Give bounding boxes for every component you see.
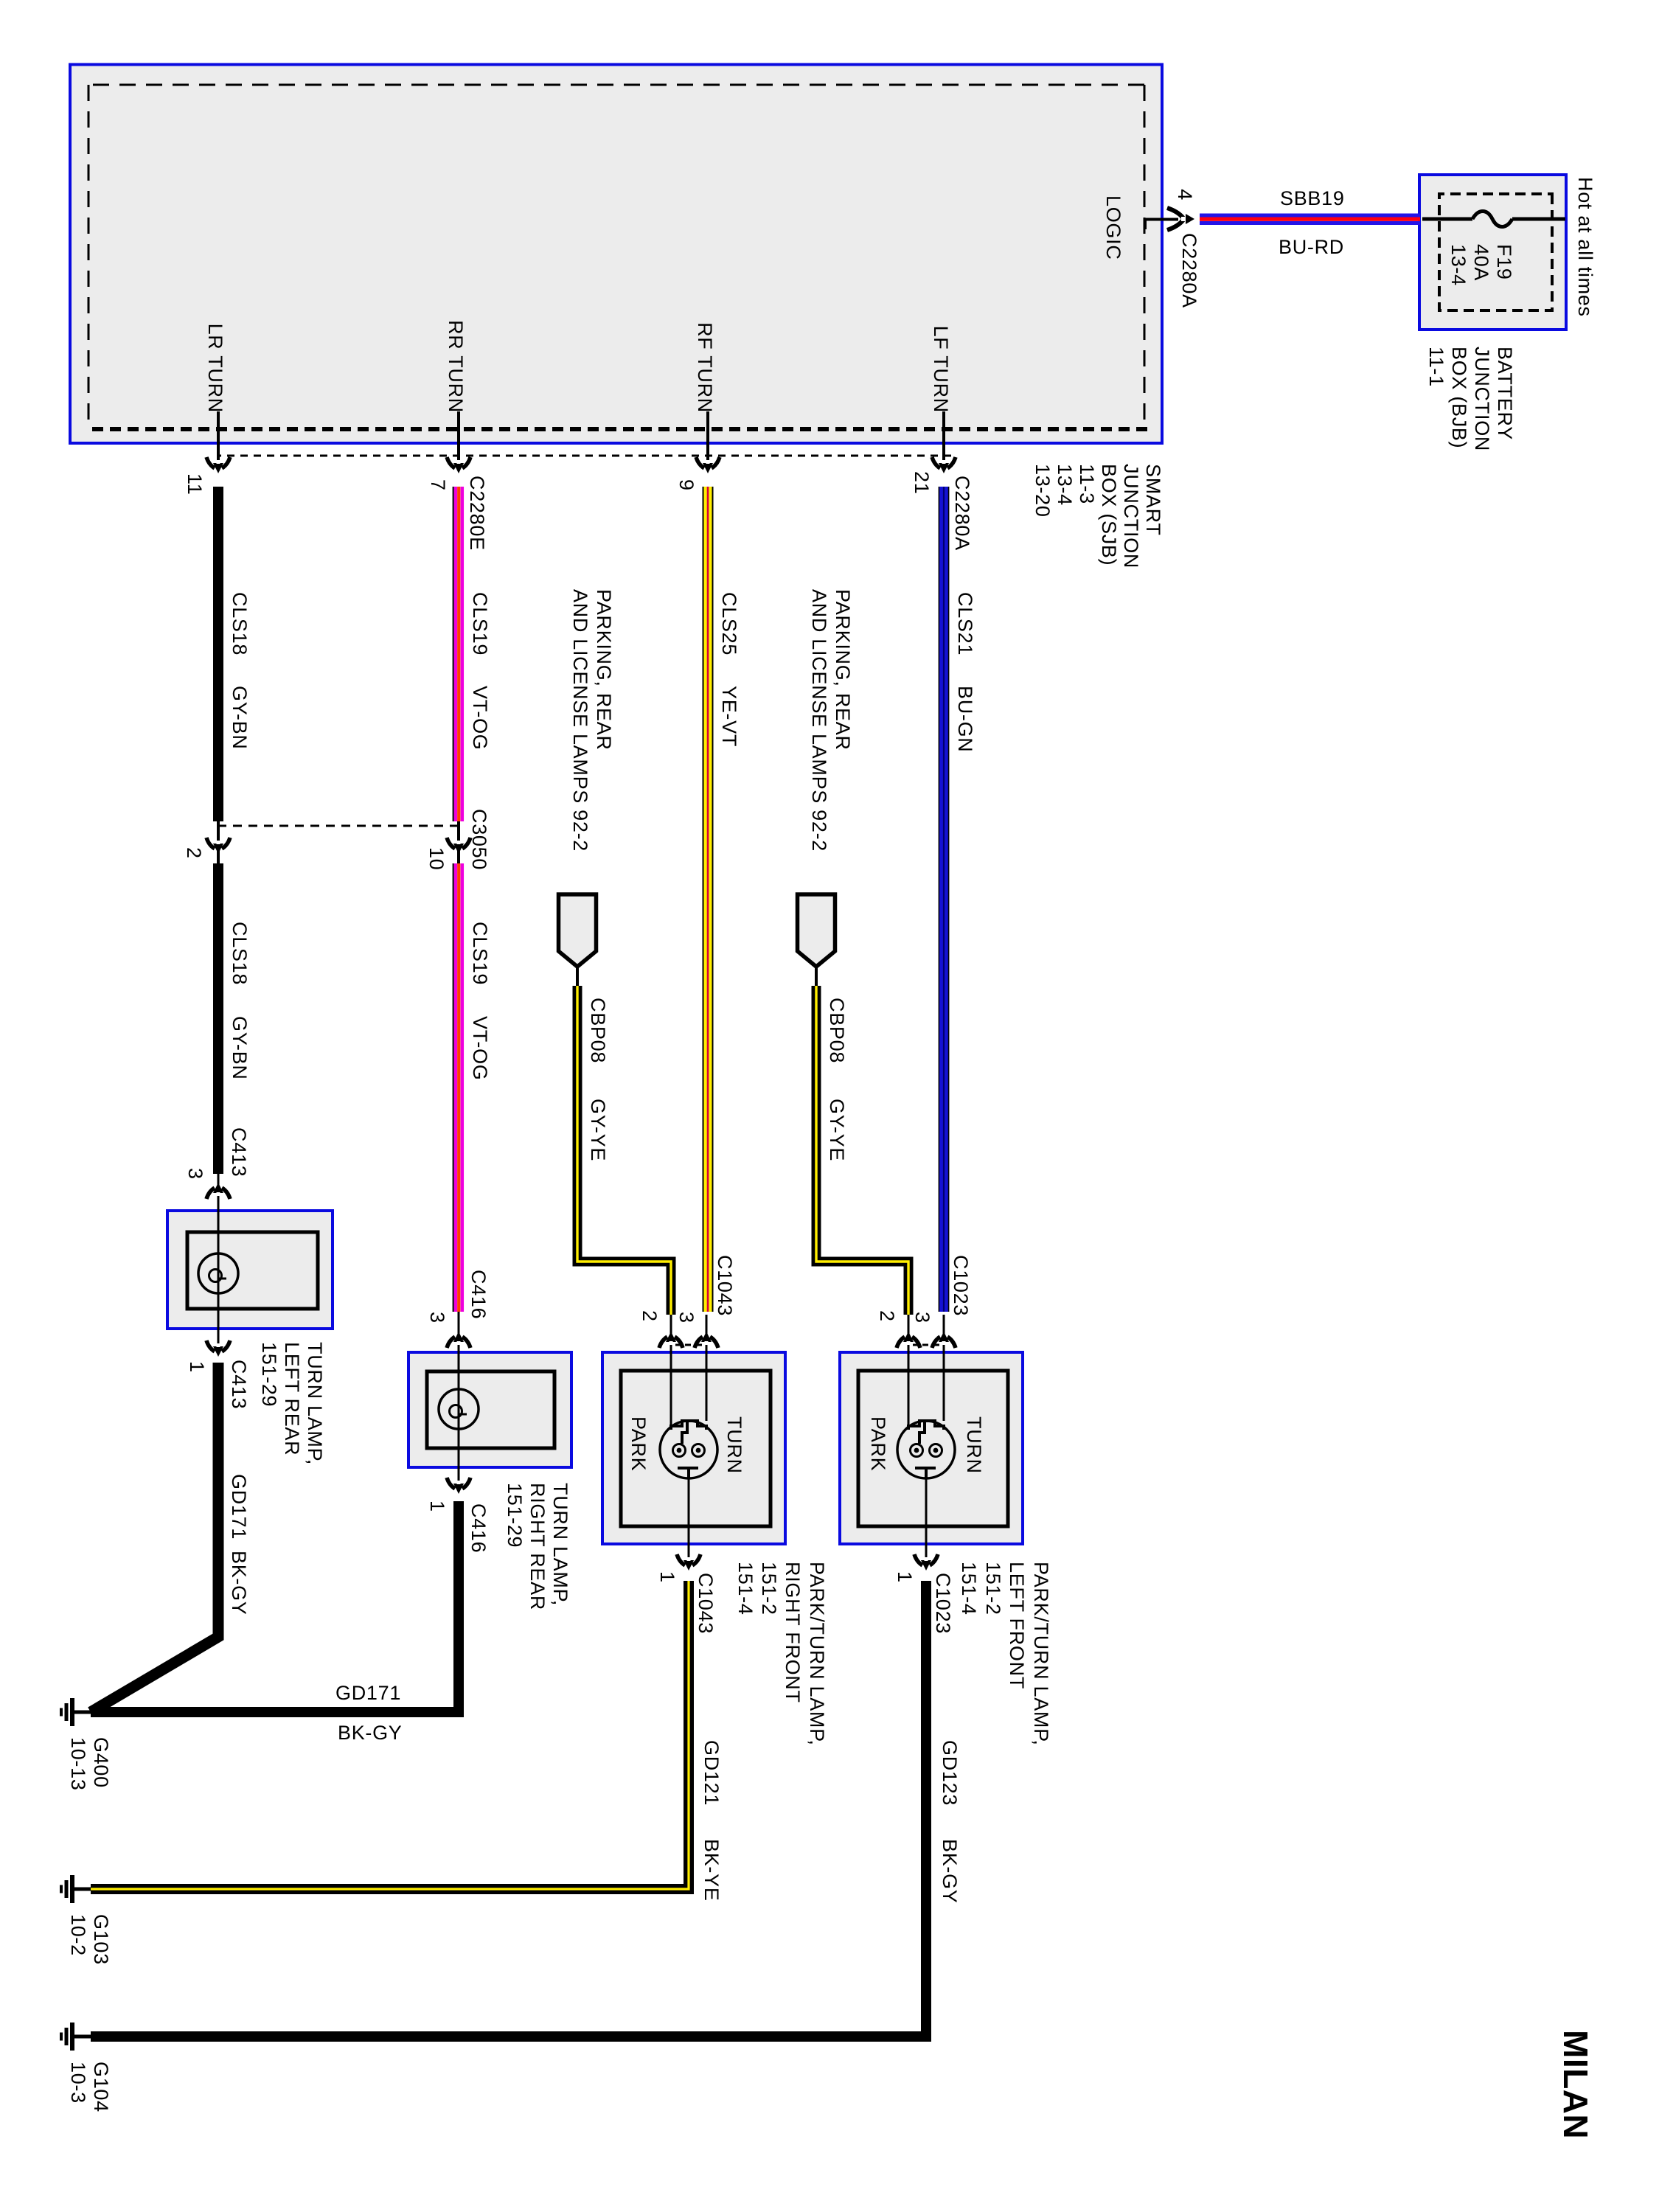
lead through lamp left rear bbox=[218, 1174, 220, 1354]
pin label LF TURN bbox=[931, 276, 950, 413]
connector C413 exit labels bbox=[229, 1360, 248, 1409]
SJB inner dashed border bbox=[1144, 85, 1146, 429]
fuse label F19 40A 13-4 bbox=[1494, 244, 1514, 280]
connector C3050 arrow on CLS18 bbox=[217, 821, 220, 863]
ground label G400 10-13 bbox=[91, 1737, 111, 1788]
entry arrows bbox=[947, 1337, 956, 1348]
label LOGIC bbox=[1103, 195, 1123, 260]
connector C413 entry labels bbox=[229, 1127, 248, 1177]
lamp left front block label bbox=[1031, 1562, 1051, 1746]
pin label RF TURN bbox=[695, 276, 714, 413]
lamp: park/turn lamp right front - box bbox=[602, 1352, 785, 1544]
BJB inner dashed border bbox=[1439, 194, 1552, 310]
lamp right rear block label bbox=[550, 1483, 570, 1606]
labels TURN PARK (RF) bbox=[724, 1416, 744, 1474]
connector C3050 labels bbox=[469, 809, 489, 870]
SJB pin stub LR TURN bbox=[217, 411, 220, 470]
connector C416 entry labels bbox=[468, 1270, 488, 1319]
wire GD123 BK-GY to ground G104 bbox=[91, 1581, 926, 2037]
SJB pin 4 lead bbox=[1145, 220, 1178, 230]
ground G400 bbox=[74, 1711, 91, 1714]
wire labels CLS25 YE-VT bbox=[719, 592, 739, 655]
wire GD171 BK-GY from lamp left rear bbox=[91, 1363, 218, 1712]
pin numbers at SJB exits bbox=[184, 473, 204, 495]
wire SBB19 BU-RD from BJB to SJB pin 4 bbox=[1200, 214, 1420, 218]
labels CBP08 GY-YE (LF feed) bbox=[827, 998, 846, 1063]
wire CLS25 YE-VT (yellow) bbox=[703, 487, 713, 1312]
pin label LR TURN bbox=[205, 276, 225, 413]
ground label G104 10-3 bbox=[91, 2062, 111, 2112]
label PARKING REAR AND LICENSE LAMPS (LF) bbox=[832, 589, 852, 751]
park feed pin 2 label (RF) bbox=[639, 1310, 659, 1322]
connector C2280A arrow at pin 4 bbox=[1167, 208, 1183, 218]
connector C1043 exit labels bbox=[695, 1573, 715, 1634]
park lead bbox=[670, 1315, 672, 1430]
wire label SBB19 bbox=[1280, 189, 1345, 209]
lamp left rear block label bbox=[305, 1342, 324, 1465]
wire CLS19 VT-OG segment 2 (magenta) bbox=[461, 863, 465, 1312]
ground G103 bbox=[74, 1888, 91, 1891]
lamp: park/turn lamp left front - box bbox=[840, 1352, 1023, 1544]
smart junction box SJB outline bbox=[70, 65, 1162, 444]
wire labels CLS19 VT-OG bbox=[470, 592, 490, 655]
SJB pin stub RF TURN bbox=[706, 411, 709, 470]
lead through lamp right rear bbox=[458, 1312, 460, 1491]
fuse F19 element bbox=[1512, 218, 1565, 221]
label MILAN bbox=[1565, 2030, 1585, 2139]
wire GD171 BK-GY from lamp right rear to G400 bbox=[91, 1501, 459, 1712]
connector label C2280E bbox=[467, 476, 487, 551]
exit lead bbox=[925, 1479, 928, 1568]
pin number 4 bbox=[1175, 177, 1194, 201]
bulb turn right rear bbox=[439, 1389, 479, 1429]
connector C1023 exit labels bbox=[933, 1573, 953, 1634]
connector C3050 dashed line bbox=[218, 825, 459, 827]
turn lead bbox=[706, 1315, 708, 1421]
wire GD121 BK-YE to ground G103 bbox=[91, 1581, 689, 1889]
entry connector dashes bbox=[675, 1344, 702, 1346]
wire CBP08 GY-YE (black/yellow) bbox=[577, 986, 671, 1315]
wire CBP08 GY-YE (black/yellow) bbox=[816, 986, 908, 1315]
connector C416 exit labels bbox=[468, 1503, 488, 1553]
connector C1043 entry labels bbox=[714, 1255, 734, 1316]
lamp: turn lamp left rear - box bbox=[167, 1211, 333, 1329]
park lead bbox=[908, 1315, 910, 1430]
ground G104 bbox=[74, 2035, 91, 2039]
connector C413 arrow (entry) bbox=[222, 1188, 230, 1199]
wire labels GD123 BK-GY bbox=[939, 1740, 959, 1806]
entry arrows bbox=[710, 1337, 718, 1348]
label BATTERY JUNCTION BOX (BJB) 11-1 bbox=[1495, 347, 1514, 440]
pin label RR TURN bbox=[445, 276, 465, 413]
connector C3050 arrow on CLS19 bbox=[457, 821, 460, 863]
labels CBP08 GY-YE (RF feed) bbox=[588, 998, 608, 1063]
lamp right front block label bbox=[807, 1562, 827, 1746]
SJB dashed pin edge (thick) bbox=[86, 427, 1147, 431]
wire labels GD171 BK-GY on left rear ground wire bbox=[229, 1474, 248, 1540]
wire labels CLS21 BU-GN bbox=[955, 592, 975, 655]
wire labels CLS18 GY-BN bbox=[229, 592, 249, 655]
battery junction box BJB outline bbox=[1419, 175, 1566, 330]
connector C413 arrow (exit) bbox=[222, 1340, 230, 1352]
dual filament bulb bbox=[660, 1421, 717, 1478]
label SMART JUNCTION BOX (SJB) bbox=[1143, 464, 1163, 536]
ground label G103 10-2 bbox=[91, 1914, 111, 1965]
wire CLS18 GY-BN segment 1 (black) bbox=[213, 487, 223, 821]
connector label C2280A at LF TURN bbox=[952, 476, 972, 551]
take-out connector (from parking lamps circuit) bbox=[798, 894, 835, 967]
wire CLS21 BU-GN (blue) bbox=[939, 487, 949, 1312]
SJB pin stub RR TURN bbox=[457, 411, 460, 470]
exit lead bbox=[688, 1479, 690, 1568]
wire labels GD171 BK-GY (rotated) bbox=[335, 1683, 401, 1703]
bulb turn left rear bbox=[198, 1253, 238, 1293]
park feed pin 2 label (LF) bbox=[877, 1310, 897, 1322]
turn lead bbox=[943, 1315, 945, 1421]
connector C1023 entry labels bbox=[950, 1255, 970, 1316]
take-out connector (from parking lamps circuit) bbox=[559, 894, 597, 967]
entry connector dashes bbox=[913, 1344, 939, 1346]
label PARKING REAR AND LICENSE LAMPS (RF) bbox=[594, 589, 613, 751]
connector C416 arrow (exit) bbox=[462, 1478, 470, 1489]
connector C416 arrow (entry) bbox=[462, 1337, 470, 1348]
connector label C2280A at pin 4 bbox=[1179, 233, 1199, 308]
wire labels GD121 BK-YE bbox=[701, 1740, 721, 1806]
connector dashed line C2280 at SJB pins bbox=[218, 455, 951, 457]
label Hot at all times bbox=[1575, 177, 1595, 317]
dual filament bulb bbox=[897, 1421, 955, 1478]
wire CLS18 GY-BN segment 2 (black) bbox=[213, 863, 223, 1174]
labels TURN PARK (LF) bbox=[964, 1416, 984, 1474]
wire label BU-RD bbox=[1279, 237, 1344, 257]
SJB pin stub LF TURN bbox=[942, 411, 945, 470]
lamp: turn lamp right rear - box bbox=[408, 1352, 571, 1467]
wire CLS19 VT-OG segment 1 (magenta) bbox=[461, 487, 465, 821]
